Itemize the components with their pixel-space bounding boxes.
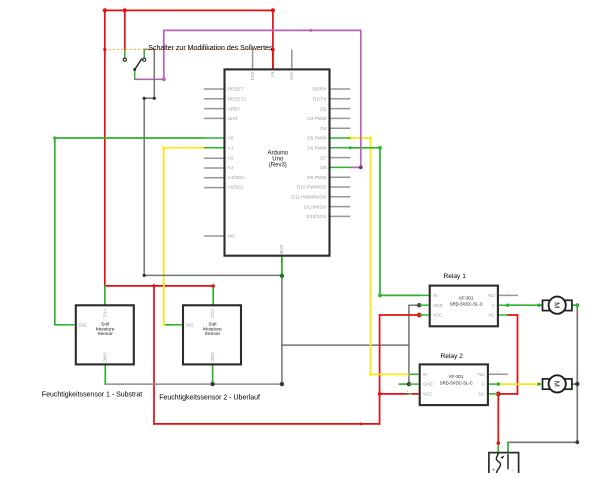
node relay2 VCC T dot	[378, 392, 382, 396]
relay1 C pin green	[499, 304, 508, 306]
svg-text:M: M	[553, 381, 562, 387]
relay1 NC pin green	[499, 314, 508, 316]
svg-text:VCC: VCC	[423, 392, 432, 397]
node D8 purple junction dot	[359, 166, 363, 170]
battery squiggle	[496, 453, 500, 473]
node bottom rail segment dot	[360, 423, 363, 426]
wire gray sensor GND rail	[105, 383, 282, 385]
sensor1 SIG pin green	[65, 324, 74, 326]
arduino body	[225, 69, 330, 255]
node sensor2 GND dot	[210, 382, 214, 386]
svg-text:SIG: SIG	[79, 323, 87, 328]
node relay2 C stub dot	[497, 382, 500, 385]
svg-text:D7: D7	[320, 155, 326, 161]
wire 5V down to Arduino 5V pin	[272, 10, 274, 69]
relay1 body	[430, 286, 498, 327]
svg-text:IN: IN	[423, 372, 427, 377]
wire black GND vertical from Arduino GND	[281, 275, 283, 384]
wire red rail branch down	[153, 286, 155, 424]
wire green sensor1 GND drop	[104, 364, 106, 384]
svg-text:NC: NC	[488, 313, 494, 318]
arduino GND pin green	[281, 257, 283, 266]
battery arrow	[500, 455, 504, 459]
wire red relay2 NC horizontal	[498, 393, 517, 395]
svg-text:VCC: VCC	[103, 309, 108, 319]
wire red to relay1 VCC	[380, 314, 420, 316]
svg-text:D0/RX: D0/RX	[312, 87, 327, 93]
battery outline2	[489, 453, 519, 473]
node D6 stub dot	[349, 146, 352, 149]
svg-text:RESET: RESET	[228, 87, 244, 93]
svg-text:D9 PWM: D9 PWM	[307, 175, 326, 181]
arduino name text	[267, 150, 288, 168]
svg-text:A2: A2	[228, 155, 234, 161]
arduino left pin A1 green	[204, 147, 224, 149]
node arduino GND junction dot	[280, 274, 284, 278]
svg-text:Relay 1: Relay 1	[444, 273, 467, 280]
svg-text:(Rev3): (Rev3)	[269, 162, 287, 168]
arduino top pin labels	[249, 72, 294, 81]
motor1 left terminal	[543, 300, 551, 310]
svg-text:GND: GND	[278, 245, 284, 256]
svg-text:AREF: AREF	[228, 106, 241, 112]
svg-text:+: +	[492, 468, 495, 474]
motor2 circle	[549, 375, 566, 392]
wire red relay2 NC down to battery	[497, 394, 499, 443]
wire green relay2 GND stub	[399, 383, 408, 385]
svg-text:C: C	[492, 303, 495, 308]
svg-text:D3 PWM: D3 PWM	[307, 116, 326, 122]
relay1 pin labels	[433, 293, 443, 318]
node battery minus corner dot	[575, 440, 579, 444]
node motor2 right dot	[575, 382, 579, 386]
svg-text:KF-301: KF-301	[459, 295, 474, 300]
pin number marks	[127, 55, 567, 394]
node motor1 left dot	[537, 304, 540, 307]
motor1 circle	[549, 297, 566, 314]
sensor1 body	[76, 305, 134, 364]
svg-text:Sensor: Sensor	[205, 331, 221, 337]
node 5V switch branch dot	[123, 8, 127, 12]
node D5 corner dot	[369, 137, 372, 140]
relay1 NO pin gray	[499, 294, 518, 296]
svg-text:M: M	[553, 302, 562, 308]
node sensor2 VCC junction	[212, 284, 215, 287]
switch pivot dot	[133, 68, 136, 71]
node purple mid dot	[310, 29, 313, 32]
switch lever	[135, 59, 142, 70]
switch pin2 green stub	[143, 49, 145, 58]
svg-text:KF-301: KF-301	[449, 374, 464, 379]
wire green D6 to relay1 IN	[350, 148, 419, 296]
svg-text:Schalter zur Modifikation des: Schalter zur Modifikation des Sollwertes	[148, 45, 273, 52]
svg-text:NO: NO	[488, 293, 495, 298]
svg-text:D5 PWM: D5 PWM	[307, 136, 326, 142]
wire black GND horizontal to relays	[282, 344, 409, 346]
arduino top pin 5V (red wire over)	[272, 49, 274, 68]
svg-text:IN: IN	[433, 293, 437, 298]
svg-text:GND: GND	[103, 352, 108, 363]
svg-text:D11 PWM/MOSI: D11 PWM/MOSI	[291, 195, 326, 201]
relay2 C pin green	[489, 383, 498, 385]
wire 5V branch down to switch pin1	[124, 10, 126, 49]
svg-text:D12/MISO: D12/MISO	[304, 204, 327, 210]
svg-text:5V: 5V	[269, 72, 275, 79]
battery inner plate	[507, 454, 509, 469]
wire green battery minus stub	[507, 442, 509, 452]
node sensor2 sig corner dot	[162, 323, 165, 326]
svg-text:Feuchtigkeitssensor 1 - Substr: Feuchtigkeitssensor 1 - Substrat	[42, 392, 142, 399]
relay2 pin labels	[423, 372, 433, 397]
svg-text:VCC: VCC	[210, 309, 215, 319]
svg-text:D1/TX: D1/TX	[313, 97, 327, 103]
wire red vertical to relay VCCs	[379, 315, 381, 424]
node relay2 IN corner dot	[369, 373, 372, 376]
wire red bottom horizontal	[154, 423, 380, 425]
arduino right pin D8 green	[331, 166, 351, 168]
svg-text:Feuchtigkeitssensor 2 - Uberla: Feuchtigkeitssensor 2 - Uberlauf	[159, 395, 260, 402]
wire green sensor2 GND drop	[212, 364, 214, 384]
wire red relay1 NC to down	[508, 315, 518, 394]
node battery plus dot	[497, 441, 501, 445]
wire red sensor VCC rail horizontal	[105, 285, 213, 287]
wire purple D8 to switch common	[135, 30, 361, 167]
arduino pin labels left	[228, 87, 247, 240]
arduino top pin VIN	[291, 49, 293, 68]
svg-text:Sensor: Sensor	[97, 331, 113, 337]
node gnd rail end dot	[280, 382, 284, 386]
svg-text:N/C: N/C	[228, 234, 237, 240]
wire 5V left vertical to sensor rail	[104, 10, 106, 286]
svg-text:GND: GND	[433, 303, 443, 308]
node switch wire jog dots	[153, 97, 156, 100]
relay1 name text	[450, 295, 483, 306]
node A0 corner dot	[53, 136, 56, 139]
node 5V corner dot	[103, 8, 107, 12]
svg-text:-: -	[566, 379, 567, 383]
motor1 right terminal	[564, 300, 572, 310]
svg-text:ioref: ioref	[228, 116, 238, 122]
svg-text:-: -	[512, 468, 514, 474]
svg-text:NC: NC	[478, 392, 484, 397]
wire green A0 to sensor1 SIG	[55, 138, 204, 325]
arduino pin labels right	[291, 87, 327, 220]
switch pin1 green stub	[124, 49, 126, 58]
wire dark gray battery minus horizontal	[508, 441, 577, 443]
node D5 stub dot	[349, 136, 352, 139]
wire yellow D5 to relay2 IN	[350, 138, 409, 374]
node D6 relay corner dot	[378, 294, 382, 298]
wire green battery plus stub	[497, 443, 499, 453]
svg-text:SRD-5VDC-SL-C: SRD-5VDC-SL-C	[450, 302, 483, 307]
svg-text:D13/SCK: D13/SCK	[307, 214, 328, 220]
wire green sensor2 sig tail	[164, 324, 173, 326]
svg-text:VCC: VCC	[433, 313, 442, 318]
node relay2 GND dot	[407, 382, 411, 386]
ratsnest dotted orange	[105, 48, 273, 50]
switch common green stub	[134, 70, 136, 79]
svg-text:A5/SCL: A5/SCL	[228, 185, 245, 191]
svg-text:A1: A1	[228, 146, 234, 152]
relay2 VCC red tail	[411, 393, 418, 395]
wire green motor1 right tail	[572, 304, 578, 306]
relay2 name text	[440, 374, 473, 385]
svg-text:A4/SDA: A4/SDA	[228, 175, 246, 181]
svg-text:GND: GND	[423, 382, 433, 387]
switch terminal 2 circle	[143, 58, 146, 61]
node D6 wire corner dot	[378, 146, 382, 150]
svg-text:SRD-5VDC-SL-C: SRD-5VDC-SL-C	[440, 380, 473, 385]
node switch purple corner dot	[162, 77, 166, 81]
svg-text:SIG: SIG	[186, 323, 194, 328]
relay2 NC pin green	[489, 393, 498, 395]
svg-text:D6 PWM: D6 PWM	[307, 146, 326, 152]
node relay1 VCC dot	[417, 313, 422, 318]
wire black GND up to relay1 GND	[409, 305, 419, 345]
svg-text:D10 PWM/SS: D10 PWM/SS	[297, 185, 327, 191]
node red rail branch	[152, 284, 155, 287]
wire yellow A1 to sensor2 SIG	[164, 148, 204, 325]
node switch wire corner dot	[143, 274, 146, 277]
arduino top pin 3V3	[252, 49, 254, 68]
node relay1 GND dot	[417, 303, 421, 307]
wire green motor2 right tail	[572, 383, 578, 385]
relay2 body	[420, 364, 488, 405]
node A1 corner dot	[162, 146, 165, 149]
motor2 right terminal	[564, 379, 572, 389]
wire black switch pin2 down	[144, 49, 282, 275]
svg-text:VIN: VIN	[288, 72, 294, 81]
wire 5V top horizontal	[105, 9, 273, 11]
wire red to relay2 VCC	[380, 393, 409, 395]
wire green sensor1 VCC drop	[104, 286, 106, 305]
svg-text:RESET2: RESET2	[228, 97, 247, 103]
node motor2 left dot	[537, 382, 540, 385]
switch terminal 1 circle	[123, 58, 126, 61]
relay2 NO pin gray	[489, 373, 508, 375]
relay2 left pins green	[409, 373, 419, 375]
svg-text:GND: GND	[210, 352, 215, 363]
wire green Arduino GND drop	[281, 256, 283, 276]
arduino right pin D6 green	[331, 147, 351, 149]
node motor1 right dot	[575, 303, 579, 307]
svg-text:NO: NO	[478, 372, 485, 377]
svg-text:C: C	[482, 382, 485, 387]
sensor2 body	[183, 305, 241, 364]
node ratsnest end right	[271, 48, 275, 52]
node relay2 NC dot	[496, 392, 501, 397]
arduino right pins	[331, 89, 351, 216]
sensor2 SIG pin green	[173, 324, 182, 326]
relay1 left pins green	[419, 294, 428, 296]
arduino right pin D5 green	[331, 137, 351, 139]
svg-text:D8: D8	[320, 165, 326, 171]
arduino left pins	[204, 89, 224, 236]
wire yellow relay2 C to motor2	[498, 383, 542, 385]
node 5V arduino corner dot	[271, 8, 275, 12]
wire green sensor2 VCC drop	[212, 286, 214, 305]
svg-text:A0: A0	[228, 136, 234, 142]
svg-text:Relay 2: Relay 2	[441, 353, 464, 360]
wire dark gray motor return vertical	[576, 305, 578, 442]
node relay1 C stub dot	[506, 304, 509, 307]
svg-text:A3: A3	[228, 165, 234, 171]
wire green relay1 C to motor1	[508, 304, 543, 306]
svg-text:D2: D2	[320, 106, 326, 112]
svg-text:D4: D4	[320, 126, 326, 132]
node ratsnest end left	[103, 48, 106, 51]
arduino left pin A0 green	[204, 137, 224, 139]
wire black GND down to relay2 GND	[408, 345, 410, 384]
motor2 left terminal	[543, 379, 551, 389]
svg-text:-: -	[566, 300, 567, 304]
